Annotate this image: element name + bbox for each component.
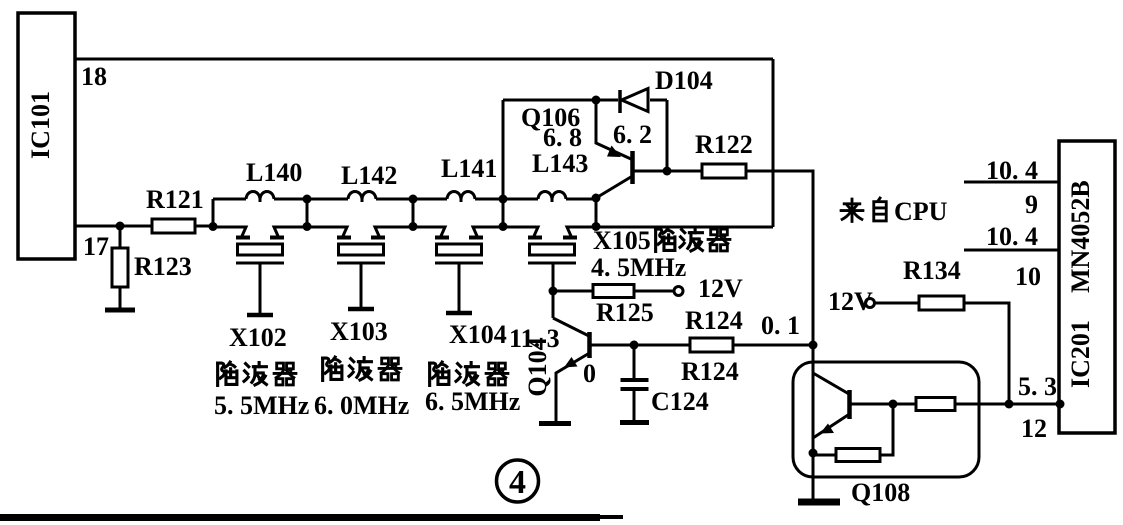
inductor L141	[413, 198, 447, 201]
svg-text:IC101: IC101	[26, 91, 55, 159]
svg-text:R123: R123	[134, 252, 192, 281]
junction dot R124 / Q108 input node	[809, 341, 818, 350]
svg-text:X105: X105	[593, 226, 651, 255]
transistor Q104 base bar	[587, 332, 592, 358]
wire R122 to corner, down to Q108 net	[746, 171, 813, 499]
wire pin18 top	[75, 58, 773, 61]
ground terminal Q104 emitter	[539, 421, 571, 426]
svg-text:4: 4	[509, 464, 526, 501]
label X103 function: trap (CJK)	[323, 357, 401, 380]
junction dots	[116, 194, 601, 232]
node B junctions	[303, 195, 312, 204]
wire R134 to pin 12 net	[964, 303, 1009, 404]
wire IC201 pin 10	[964, 249, 1059, 252]
arrow Q106 emitter (PNP)	[607, 146, 621, 158]
capacitor C124 plates	[621, 378, 649, 382]
resistor R125	[593, 285, 634, 298]
transistor Q104 collector lead	[590, 344, 690, 347]
transistor Q108 base lead	[813, 373, 849, 394]
transistor Q106 emitter lead	[596, 100, 631, 159]
svg-text:IC201: IC201	[1066, 320, 1095, 388]
resistor R121	[152, 219, 195, 233]
resistor R134	[919, 296, 964, 310]
arrow Q104 emitter (NPN)	[564, 357, 578, 368]
transistor Q104 base lead	[553, 318, 589, 336]
junction dot D104 cathode node	[663, 167, 672, 176]
diode D104	[618, 90, 622, 113]
svg-text:Q104: Q104	[523, 337, 552, 396]
wire pin17 to R121	[75, 225, 152, 228]
transistor Q106 base bar	[630, 151, 635, 184]
inductor L142	[307, 198, 348, 201]
figure number 4 circled	[497, 460, 539, 502]
resistor R122	[702, 164, 746, 178]
label from CPU (CJK + latin)	[841, 198, 886, 221]
wire R125 to 12V terminal	[634, 290, 674, 293]
transistor Q104 emitter lead	[556, 353, 590, 421]
svg-text:CPU: CPU	[894, 197, 948, 226]
svg-text:9: 9	[1025, 190, 1038, 219]
resistor Q108 internal collector R	[916, 398, 955, 411]
wire D104 to collector node	[666, 100, 669, 171]
svg-text:6. 5MHz: 6. 5MHz	[425, 387, 520, 416]
wire node A vertical	[212, 199, 215, 227]
wire node D vertical (left side of Q106 loop)	[502, 100, 505, 227]
resistor R123	[119, 226, 122, 248]
junction dot X105/R125 node	[549, 287, 558, 296]
arrow Q108 emitter (NPN)	[820, 424, 834, 434]
label X104 function: trap (CJK)	[430, 362, 508, 385]
node C junctions	[409, 195, 418, 204]
svg-text:X104: X104	[449, 320, 507, 349]
svg-text:0. 1: 0. 1	[761, 311, 800, 340]
svg-text:Q108: Q108	[851, 478, 910, 507]
svg-text:R124: R124	[681, 357, 739, 386]
wire node B vertical	[306, 199, 309, 227]
svg-text:R122: R122	[695, 130, 753, 159]
wire X105 output down	[552, 263, 555, 318]
inductor L143	[503, 198, 538, 201]
inductor L140	[213, 198, 246, 201]
node E junctions	[592, 194, 601, 203]
IC101 box	[18, 13, 75, 259]
svg-text:L142: L142	[341, 161, 397, 190]
ceramic trap X102	[213, 227, 246, 236]
digital transistor Q108 package outline	[793, 362, 979, 477]
svg-text:R125: R125	[596, 298, 654, 327]
supply 12V terminal for R134	[866, 299, 875, 308]
transistor Q108 emitter lead	[813, 414, 850, 438]
ground Q108	[798, 499, 840, 506]
svg-text:R124: R124	[685, 306, 743, 335]
ground terminal of R123	[105, 308, 135, 313]
svg-text:D104: D104	[655, 66, 713, 95]
capacitor C124 bottom lead	[633, 391, 636, 420]
svg-text:5. 5MHz: 5. 5MHz	[214, 391, 309, 420]
junction dot Q104 collector / C124 node	[630, 341, 639, 350]
node R123 junction	[116, 222, 125, 231]
ceramic trap X104	[413, 227, 445, 236]
svg-text:17: 17	[83, 232, 109, 261]
terminal 12V open circle	[674, 287, 683, 296]
wire right vertical of top net	[772, 59, 775, 227]
ceramic trap X103	[307, 227, 347, 236]
svg-text:10. 4: 10. 4	[986, 222, 1038, 251]
svg-text:10: 10	[1015, 262, 1041, 291]
transistor Q106 collector lead	[596, 176, 633, 198]
svg-text:6. 8: 6. 8	[543, 123, 582, 152]
junction dot pin12 at IC201	[1056, 400, 1065, 409]
svg-text:6. 2: 6. 2	[613, 120, 652, 149]
label X102 function: trap (CJK)	[218, 362, 296, 385]
resistor R124	[690, 338, 733, 352]
ground terminal C124	[620, 420, 649, 425]
IC201 box	[1059, 141, 1115, 433]
resistor Q108 internal base-emitter R	[813, 454, 836, 457]
ceramic trap X105	[503, 227, 538, 236]
wire Q106 to R122	[634, 170, 702, 173]
svg-text:R121: R121	[146, 185, 204, 214]
svg-text:MN4052B: MN4052B	[1066, 180, 1095, 293]
svg-text:10. 4: 10. 4	[986, 156, 1038, 185]
wire X105 to R125	[553, 290, 593, 293]
capacitor C124 top lead	[633, 345, 636, 378]
node A junction	[209, 222, 218, 231]
svg-text:12V: 12V	[828, 287, 873, 316]
svg-text:18: 18	[81, 62, 107, 91]
svg-text:L143: L143	[532, 149, 588, 178]
svg-text:0: 0	[583, 359, 596, 388]
junction dot R134 / pin12 net	[1005, 400, 1014, 409]
svg-text:R134: R134	[903, 256, 961, 285]
svg-text:L140: L140	[246, 158, 302, 187]
svg-text:C124: C124	[651, 387, 709, 416]
wire Q108 output to IC201 pin 12	[955, 403, 1059, 406]
wire Q106 loop top side	[503, 99, 618, 102]
svg-text:4. 5MHz: 4. 5MHz	[591, 253, 686, 282]
junction dot Q106 emitter at top wire	[592, 96, 601, 105]
transistor Q108 base bar	[847, 390, 852, 419]
svg-text:6. 0MHz: 6. 0MHz	[314, 391, 409, 420]
wire IC201 pin 9	[964, 181, 1059, 184]
wire R121 to node A	[195, 225, 213, 228]
wire node C vertical	[412, 199, 415, 227]
wire 12V to R134	[875, 302, 920, 305]
svg-text:12: 12	[1021, 414, 1047, 443]
svg-text:X102: X102	[229, 323, 287, 352]
node D junctions	[499, 195, 508, 204]
wire R124 to Q108 net	[733, 344, 813, 347]
scan artifact bottom bar	[0, 514, 600, 521]
svg-text:X103: X103	[330, 317, 388, 346]
junction dot Q108 collector / internal R node	[889, 400, 898, 409]
wire node E vertical	[595, 198, 598, 227]
svg-text:5. 3: 5. 3	[1018, 372, 1057, 401]
svg-text:L141: L141	[441, 154, 497, 183]
junction dot Q108 emitter / internal R node	[809, 449, 818, 458]
transistor Q108 collector lead	[850, 403, 916, 406]
svg-text:12V: 12V	[698, 274, 743, 303]
wire lower rail right segment to corner	[596, 226, 773, 229]
